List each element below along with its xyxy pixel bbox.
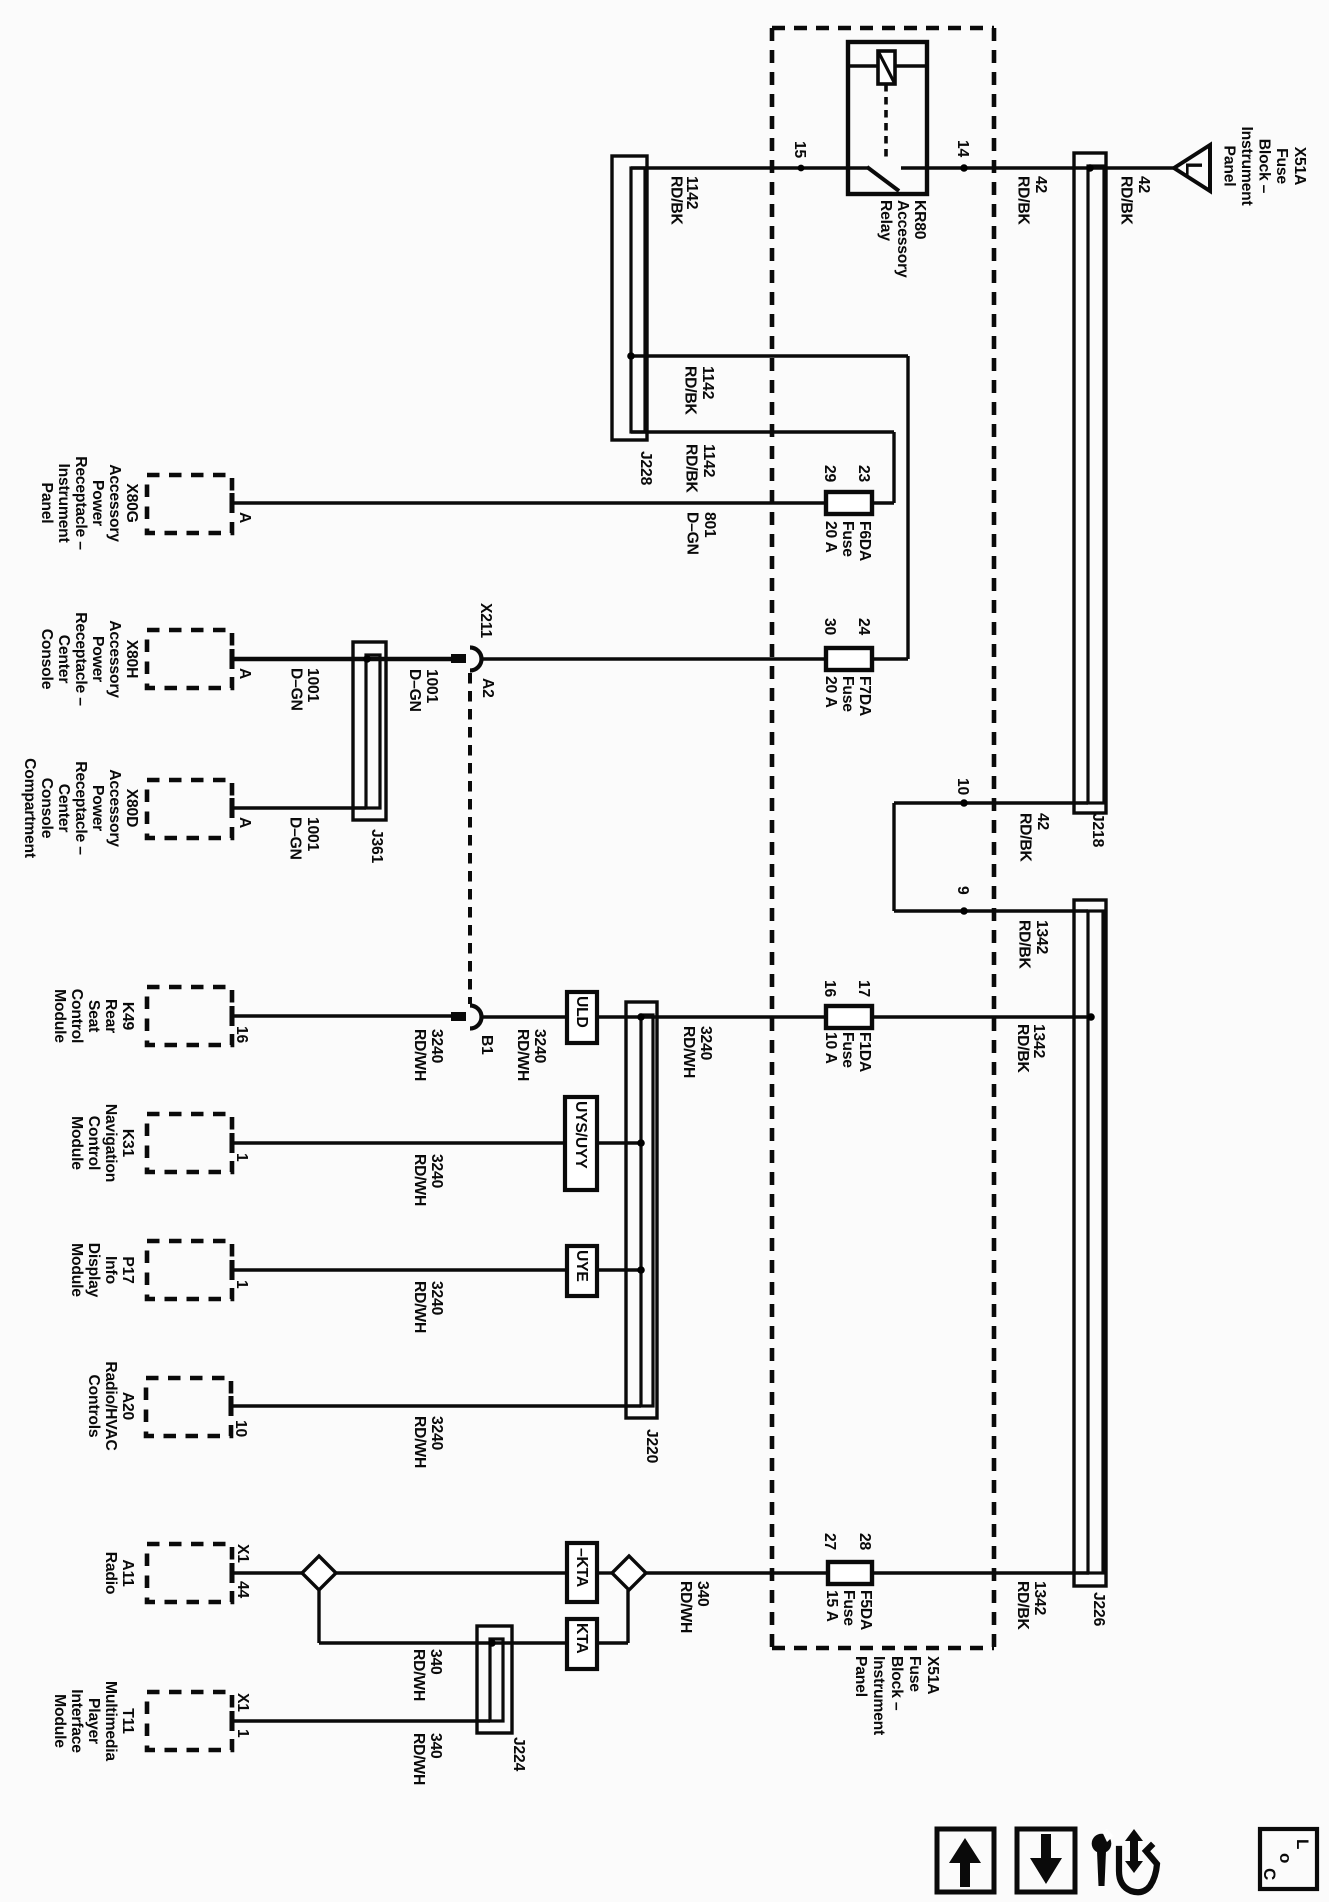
connector X80G [147,475,232,533]
junction bar J224 [477,1626,512,1733]
junction bar J228 [612,156,647,440]
svg-text:L: L [1181,162,1207,176]
pin 9 dot [960,907,968,915]
X51A fuse block boundary top dashed [772,26,994,31]
svg-text:16: 16 [233,1026,250,1044]
splice diamond 1 [302,1556,336,1590]
wire 3240 RD/WH B1 to F1DA to J226 [480,1015,1091,1018]
svg-text:UYE: UYE [573,1250,590,1282]
wire 1342 RD/BK J226 pin9 [894,909,1088,912]
connector A11 [147,1544,232,1602]
wire 3240 RD/WH K49 to B1 [232,1014,451,1017]
X51A fuse block boundary left dashed [770,28,775,1648]
svg-text:15: 15 [791,141,808,159]
relay pin 15 dot [798,165,805,172]
svg-text:J226: J226 [1090,1592,1107,1627]
fuse F5DA [828,1562,872,1584]
dashed connector line X211 A2 to B1 [468,673,472,1004]
svg-text:J224: J224 [510,1737,527,1772]
connector B1 female half circle [470,1006,482,1029]
wire 42 RD/BK J218 pin10 [894,801,1088,804]
svg-text:X1: X1 [234,1693,251,1712]
svg-text:J361: J361 [368,829,385,864]
splice box ULD [567,992,597,1043]
splice box KTA [567,1619,597,1669]
svg-text:17: 17 [855,980,872,998]
svg-text:44: 44 [234,1581,251,1599]
svg-text:L: L [1293,1839,1312,1849]
svg-text:30: 30 [821,618,838,636]
svg-text:1: 1 [233,1153,250,1162]
svg-text:14: 14 [954,140,971,158]
wire 340 RD/WH diamond2 to F5DA [646,1571,828,1574]
wire 1142 RD/BK J228 to F7DA riser top [631,354,908,357]
fuse F6DA [826,492,872,514]
fuse block triangle connector L [1174,145,1210,191]
wire 3240 RD/WH P17 to J220 [232,1268,641,1271]
junction dot J218 top [1086,164,1094,172]
svg-text:B1: B1 [478,1035,495,1055]
wire 1001 D-GN X80H to X211 [232,657,451,662]
relay KR80 switch [848,166,869,170]
svg-text:27: 27 [821,1533,838,1551]
connector X80H [147,630,232,688]
splice box UYE [567,1246,597,1296]
junction dot J220 P17 [637,1266,645,1274]
junction bar J361 [353,642,386,820]
svg-text:A: A [236,668,253,679]
fuse F1DA [826,1006,872,1028]
fuse F7DA [826,648,872,670]
svg-text:10: 10 [954,778,971,796]
connector K49 [147,987,232,1045]
splice box -KTA [567,1543,597,1602]
svg-text:ULD: ULD [573,996,590,1028]
wire 1001 D-GN X80D to J361 [232,806,366,809]
relay KR80 actuator dashed link [884,84,888,160]
relay pin 14 dot [960,164,968,172]
wire riser x908 [906,356,909,659]
svg-text:J228: J228 [637,451,654,486]
wire 42 RD/BK relay pin14 to fuse block triangle [927,166,1176,169]
wire 1342 RD/BK F5DA to J226 [872,1571,1089,1574]
connector B1 male terminal [451,1012,466,1021]
junction bar J220 [626,1002,657,1418]
wire 340 RD/WH T11 to J224 [232,1719,490,1722]
svg-text:A: A [236,512,253,523]
splice diamond 2 [612,1556,646,1590]
wire 1142 RD/BK J228 to F6DA riser top [631,430,894,433]
svg-text:J220: J220 [643,1429,660,1464]
connector X80D [147,780,232,838]
svg-text:16: 16 [821,980,838,998]
svg-text:28: 28 [856,1533,873,1551]
wire -KTA to diamond2 [597,1571,613,1574]
connector P17 [147,1241,232,1299]
relay KR80 [848,42,927,194]
icon LOC box [1260,1829,1317,1889]
wire 3240 RD/WH K31 to J220 [232,1141,641,1144]
splice box UYS/UYY [565,1097,597,1190]
X51A fuse block boundary bottom dashed [772,1646,994,1651]
junction bar J226 [1074,900,1106,1586]
junction dot J361 [363,655,371,663]
svg-text:C: C [1260,1868,1279,1880]
wire diamond2 rise [626,1590,629,1643]
pin 10 dot [960,799,968,807]
wire 1001 D-GN X211 to fuse F7DA [480,657,826,660]
svg-text:29: 29 [821,465,838,483]
wire 340 RD/WH branch [319,1641,628,1644]
wire F7DA right stub [872,657,908,660]
icon wrench with arrows [1092,1829,1143,1886]
svg-text:X80DAccessoryPowerReceptacle –: X80DAccessoryPowerReceptacle –CenterCons… [21,758,140,859]
wire F6DA right stub [872,501,894,504]
wire diamond1 drop [317,1590,320,1643]
junction bar J218 [1074,153,1106,813]
svg-text:–KTA: –KTA [573,1548,590,1587]
wire riser x894 pins [892,803,895,911]
junction dot J220 K31 [637,1139,645,1147]
icon down arrow box [1017,1829,1075,1892]
junction dot J226 F1DA [1087,1013,1095,1021]
svg-text:A: A [236,817,253,828]
svg-text:1: 1 [234,1729,251,1738]
svg-text:24: 24 [855,618,872,636]
svg-text:1: 1 [233,1280,250,1289]
connector T11 [147,1692,232,1750]
junction dot J220 K49 [637,1013,645,1021]
connector A20 [146,1378,231,1436]
connector X211 male terminal [451,654,466,663]
wire 801 D-GN X80G to fuse F6DA [232,501,826,504]
relay KR80 coil [878,51,895,84]
svg-text:KTA: KTA [573,1623,590,1653]
connector X211 female half circle [470,648,482,671]
svg-text:A2: A2 [479,678,496,698]
wire 340 RD/WH diamond1 to -KTA [336,1571,567,1574]
wire riser x894 to F6DA [892,432,895,503]
svg-text:o: o [1276,1853,1295,1863]
svg-text:10: 10 [232,1420,249,1438]
svg-text:J218: J218 [1089,813,1106,848]
wire 3240 RD/WH A20 to J220 [231,1404,641,1407]
svg-text:X211: X211 [477,603,494,638]
svg-text:X1: X1 [234,1544,251,1563]
icon up arrow box [937,1829,994,1892]
X51A fuse block boundary right dashed [992,28,997,1648]
svg-text:23: 23 [855,465,872,483]
svg-text:9: 9 [954,886,971,895]
svg-text:UYS/UYY: UYS/UYY [572,1101,589,1169]
wire 1142 RD/BK J228 to relay pin15 [631,166,848,169]
junction dot J228 row356 [627,352,635,360]
junction dot J224 [488,1639,496,1647]
connector K31 [147,1114,232,1172]
wire A11 to diamond1 [232,1571,303,1574]
